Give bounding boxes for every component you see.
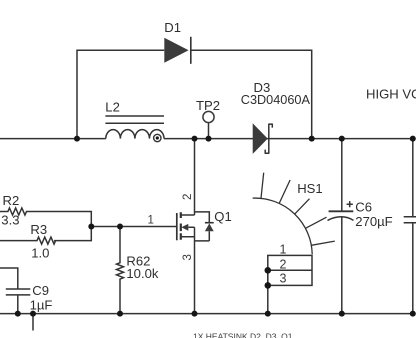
svg-text:L2: L2 <box>105 100 120 115</box>
svg-text:Q1: Q1 <box>214 209 231 224</box>
svg-text:HIGH VOLTAGE: HIGH VOLTAGE <box>366 87 416 102</box>
svg-text:HS1: HS1 <box>297 181 322 196</box>
svg-text:1: 1 <box>280 243 287 257</box>
svg-text:D1: D1 <box>164 20 181 35</box>
svg-text:C6: C6 <box>355 199 372 214</box>
svg-text:3: 3 <box>182 254 194 260</box>
svg-text:C9: C9 <box>32 283 49 298</box>
svg-text:C3D04060A: C3D04060A <box>241 93 311 107</box>
svg-text:R3: R3 <box>30 222 47 237</box>
svg-text:R2: R2 <box>3 193 20 208</box>
svg-text:1.0: 1.0 <box>31 246 49 261</box>
svg-text:1X HEATSINK D2, D3, Q1: 1X HEATSINK D2, D3, Q1 <box>193 332 293 338</box>
svg-text:TP2: TP2 <box>196 98 220 113</box>
svg-text:1µF: 1µF <box>30 297 53 312</box>
svg-text:10.0k: 10.0k <box>126 266 158 281</box>
svg-text:1: 1 <box>148 215 154 227</box>
svg-text:3.3: 3.3 <box>1 213 19 228</box>
svg-text:2: 2 <box>182 194 194 200</box>
svg-text:2: 2 <box>280 257 287 271</box>
svg-text:3: 3 <box>280 272 287 286</box>
svg-text:270µF: 270µF <box>355 214 392 229</box>
